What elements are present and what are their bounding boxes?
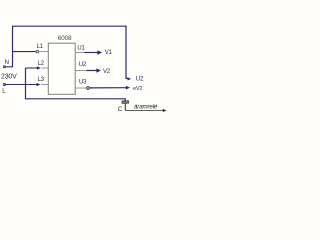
arrowhead L2	[37, 66, 41, 70]
wire U3 to eV2 arrow	[89, 86, 130, 90]
node: U3 terminal circle	[87, 87, 90, 90]
svg-text:U2: U2	[136, 76, 144, 82]
arrowhead L3	[37, 83, 41, 87]
svg-text:U2: U2	[79, 62, 87, 68]
arrow to U2 terminal	[126, 77, 131, 81]
svg-text:230V: 230V	[1, 74, 17, 81]
wire: bottom run	[25, 98, 125, 100]
svg-text:V2: V2	[103, 69, 111, 75]
svg-text:N: N	[5, 60, 9, 66]
svg-text:U3: U3	[79, 80, 87, 86]
wire L1	[13, 51, 37, 53]
arrow U2 to V2	[87, 68, 102, 73]
wire L / L3	[4, 84, 37, 86]
svg-text:eV2: eV2	[133, 86, 142, 92]
wire L2	[26, 67, 39, 69]
pin stub U1	[76, 52, 85, 54]
svg-text:C: C	[118, 107, 123, 113]
capacitor C body	[122, 101, 129, 104]
svg-text:U1: U1	[77, 45, 85, 51]
pin stub U3	[76, 87, 87, 89]
pin stub U2	[76, 70, 87, 72]
capacitor C lead	[124, 104, 126, 111]
svg-text:áramrelé: áramrelé	[134, 103, 158, 110]
pin stub L3	[41, 84, 48, 86]
pin stub L1	[39, 51, 49, 53]
node: L terminal circle	[3, 83, 5, 85]
wire: switch branch riser	[25, 68, 27, 99]
svg-text:L2: L2	[38, 61, 45, 67]
svg-text:6008: 6008	[58, 35, 72, 42]
node: L1 terminal circle	[36, 50, 39, 53]
wire: N stub	[4, 66, 13, 68]
svg-text:L3: L3	[38, 77, 45, 83]
IC box U1 6008	[48, 43, 75, 94]
wire: right vertical	[125, 26, 127, 79]
node: N terminal	[3, 66, 5, 68]
pin stub L2	[42, 67, 49, 69]
arrow to aramrele	[125, 109, 166, 112]
arrow U1 to V1	[85, 50, 103, 55]
wire: left vertical N riser	[12, 26, 14, 67]
svg-text:V1: V1	[105, 50, 113, 56]
wire: top run	[12, 25, 127, 27]
svg-text:L1: L1	[37, 44, 44, 50]
wire: downturn into capacitor	[124, 98, 126, 101]
